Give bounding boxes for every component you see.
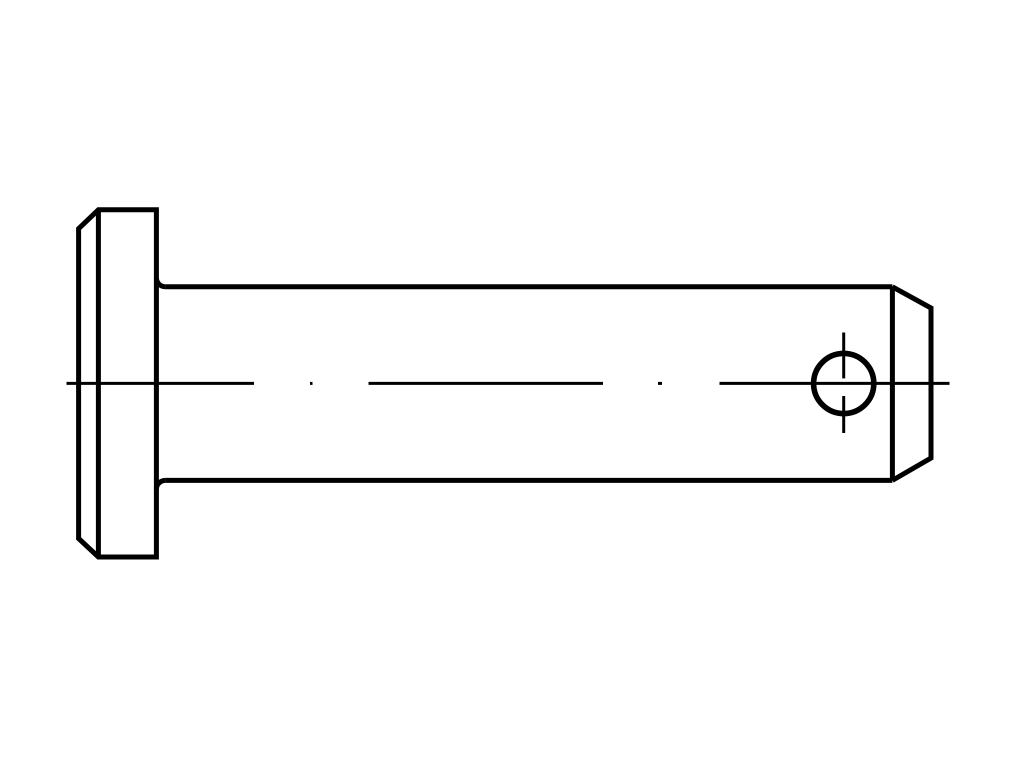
horizontal centerline dash 3 [720, 382, 950, 385]
hole vertical centerline upper dash [842, 333, 845, 379]
horizontal centerline dash 2 [369, 382, 604, 385]
hole vertical centerline lower dash [842, 396, 845, 433]
cotter pin hole [814, 353, 874, 413]
fillet top (head-to-shank radius) [156, 278, 165, 287]
horizontal centerline dot 1 [310, 382, 313, 385]
shank top line [165, 284, 892, 289]
shank bottom line [165, 478, 892, 483]
horizontal centerline dash 1 [67, 382, 255, 385]
horizontal centerline dot 2 [658, 382, 662, 385]
right end chamfered tip outline [892, 287, 931, 481]
head chamfer edge line (inner vertical) [96, 210, 101, 557]
fillet bottom (head-to-shank radius) [156, 480, 165, 489]
right end chamfer start line (vertical) [890, 287, 895, 481]
pin head outline (chamfered flange, left end) [79, 210, 157, 557]
